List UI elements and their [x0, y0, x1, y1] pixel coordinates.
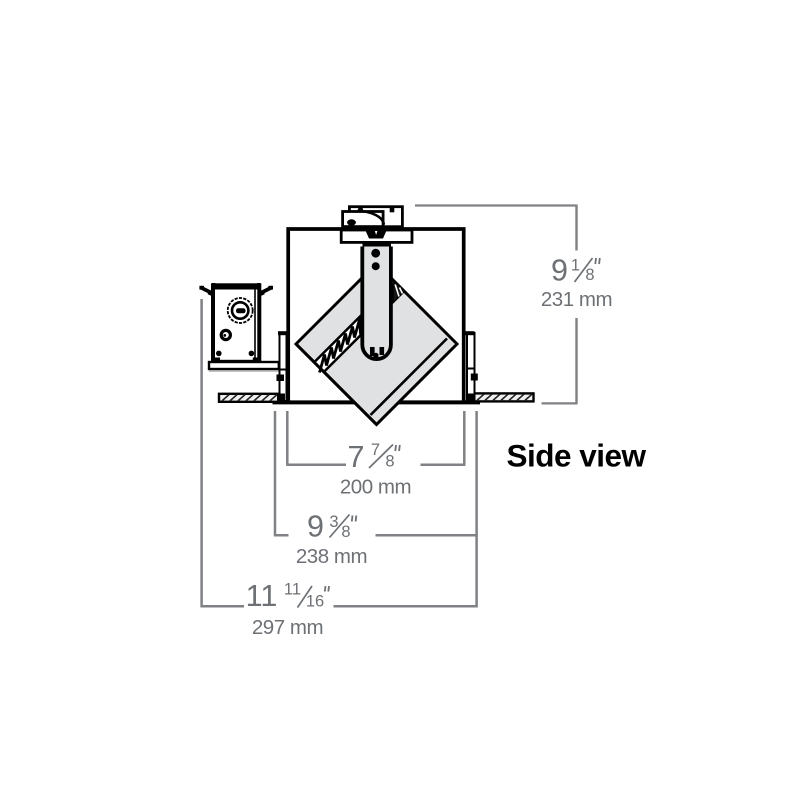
j-box inner line — [254, 288, 256, 360]
knockout outer circle — [228, 298, 253, 323]
mounting plate — [341, 230, 412, 242]
small hole dot — [223, 334, 226, 337]
fraction slash 7-7/8 — [369, 445, 393, 469]
driver box left — [343, 212, 384, 227]
dim 9-1/8 vertical line — [575, 205, 577, 404]
text 9-1/8 — [551, 254, 595, 288]
wire entry blob — [347, 219, 356, 225]
svg-text:Side view: Side view — [506, 438, 646, 474]
bar shadow line — [209, 370, 279, 372]
right trim bracket — [467, 333, 475, 401]
svg-text:8: 8 — [385, 453, 394, 471]
inch marks 9-1/8 — [595, 258, 600, 264]
lamp body diamond — [296, 264, 457, 425]
svg-text:8: 8 — [585, 266, 594, 284]
svg-text:11: 11 — [284, 581, 301, 599]
svg-text:16: 16 — [306, 593, 324, 611]
yoke mount bar — [363, 242, 392, 248]
redraw diamond lower-left edge over strip end — [296, 344, 377, 425]
text 11-11/16 — [246, 579, 325, 613]
svg-text:7: 7 — [371, 441, 380, 459]
text 7-7/8 — [348, 440, 395, 474]
mounting bar under j-box — [209, 362, 279, 369]
left trim bracket — [280, 333, 287, 401]
heatsink fin strip right part — [393, 282, 404, 303]
housing frame — [288, 229, 464, 402]
conduit arc — [357, 211, 384, 225]
lens inner line — [371, 339, 448, 416]
text 9-3/8 — [307, 510, 351, 544]
j-box screw left — [216, 351, 222, 357]
yoke screw upper — [371, 249, 380, 258]
svg-text:7: 7 — [348, 440, 365, 474]
heatsink fin strip — [314, 316, 360, 373]
box screw right — [390, 208, 395, 213]
dim 11-11/16 bracket — [200, 299, 477, 606]
box screw left — [358, 207, 363, 212]
knockout inner ring — [232, 302, 248, 318]
small hole — [221, 330, 230, 339]
svg-text:9: 9 — [551, 254, 568, 288]
flange line at ceiling — [273, 400, 481, 404]
svg-text:1: 1 — [571, 257, 580, 275]
fraction slash 11-11/16 — [298, 586, 313, 608]
inch marks 11-11/16 — [325, 586, 329, 592]
j-box left ear — [199, 283, 213, 296]
svg-text:200 mm: 200 mm — [340, 476, 411, 499]
svg-text:9: 9 — [307, 510, 324, 544]
dim 7-7/8 bracket — [286, 411, 465, 465]
inch marks 7-7/8 — [395, 445, 400, 451]
yoke arm — [362, 247, 391, 360]
u-bracket tabs — [370, 347, 375, 356]
j-box top edge thick — [212, 285, 260, 290]
yoke screw lower — [372, 262, 380, 270]
svg-text:297 mm: 297 mm — [252, 616, 323, 639]
knockout slot — [236, 308, 246, 313]
j-box corner feet — [215, 358, 221, 363]
junction box — [213, 285, 259, 362]
dim 9-3/8 bracket — [274, 411, 478, 535]
u-bracket pivot dot — [373, 353, 378, 358]
inch marks 9-3/8 — [352, 516, 357, 522]
svg-text:238 mm: 238 mm — [296, 545, 367, 568]
fraction slash 9-1/8 — [575, 258, 593, 282]
j-box right ear — [259, 283, 273, 296]
dim 9-1/8 extension top line — [415, 204, 577, 206]
dim 9-1/8 bottom tick — [542, 402, 578, 404]
svg-text:8: 8 — [341, 523, 350, 541]
j-box screw right — [249, 351, 255, 357]
svg-text:11: 11 — [246, 579, 278, 613]
ceiling left — [219, 394, 279, 402]
fraction slash 9-3/8 — [330, 515, 350, 538]
yoke cup — [366, 231, 387, 239]
svg-text:231 mm: 231 mm — [541, 288, 612, 311]
driver box outer — [349, 207, 402, 227]
ceiling right — [474, 393, 534, 401]
